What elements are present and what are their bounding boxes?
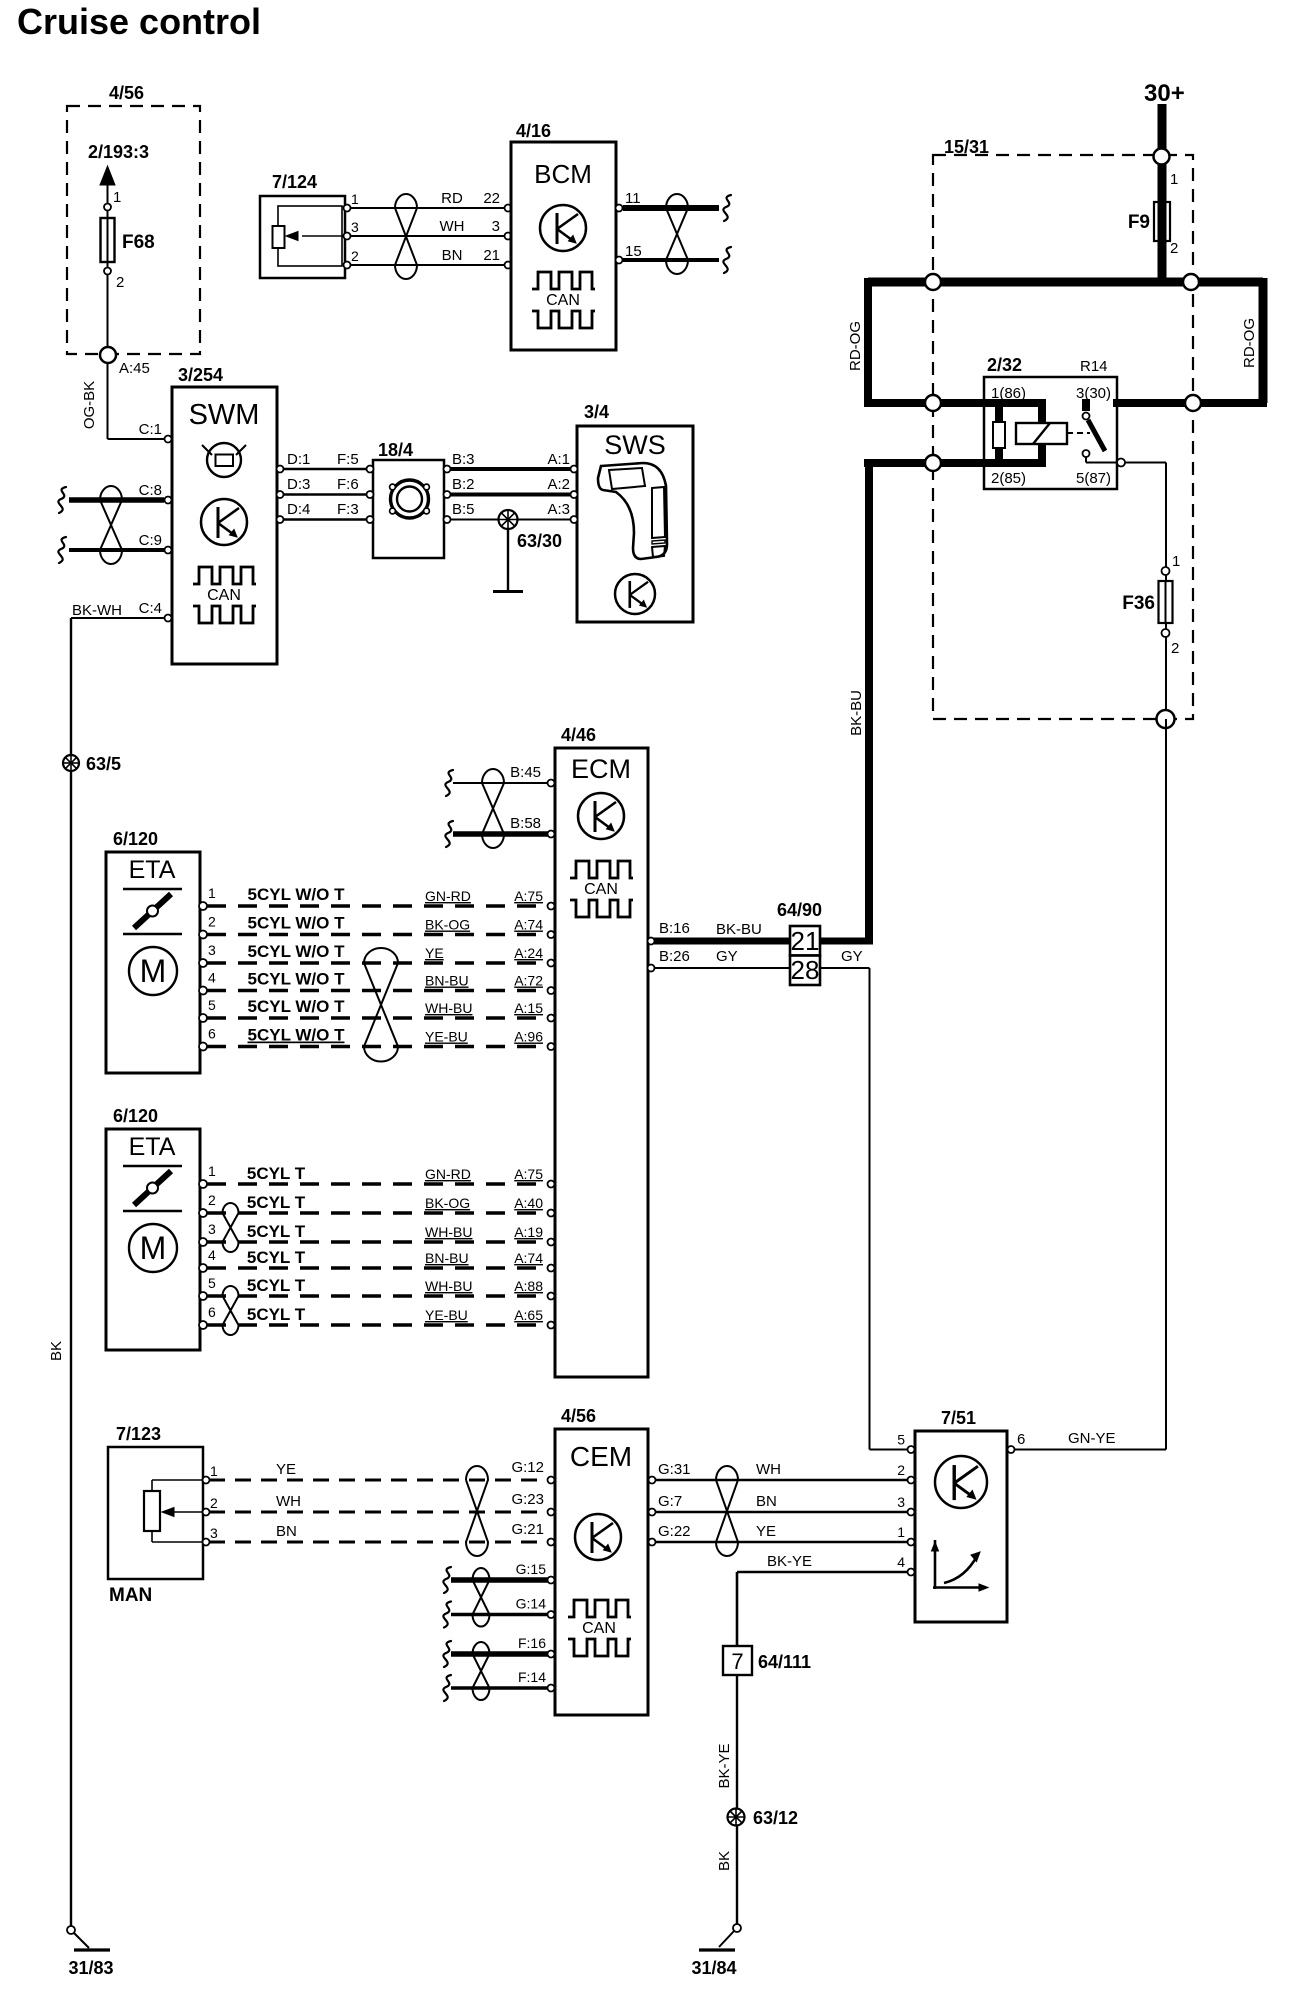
svg-text:4/46: 4/46 — [561, 725, 596, 745]
svg-text:A:75: A:75 — [514, 888, 543, 904]
svg-text:BN: BN — [756, 1493, 777, 1510]
svg-text:WH-BU: WH-BU — [425, 1278, 472, 1294]
svg-text:G:21: G:21 — [511, 1521, 544, 1538]
svg-text:6/120: 6/120 — [113, 829, 158, 849]
svg-text:WH-BU: WH-BU — [425, 1000, 472, 1016]
svg-text:GN-YE: GN-YE — [1068, 1430, 1116, 1447]
svg-text:63/12: 63/12 — [753, 1808, 798, 1828]
svg-text:B:58: B:58 — [510, 815, 541, 832]
svg-text:C:8: C:8 — [139, 482, 162, 499]
svg-text:CAN: CAN — [584, 881, 618, 898]
svg-text:BN: BN — [442, 247, 463, 264]
svg-text:G:12: G:12 — [511, 1459, 544, 1476]
svg-text:BK: BK — [716, 1851, 733, 1871]
svg-text:CAN: CAN — [582, 1620, 616, 1637]
svg-text:28: 28 — [791, 955, 820, 985]
svg-text:1: 1 — [208, 1163, 216, 1179]
svg-text:63/30: 63/30 — [517, 531, 562, 551]
svg-text:F68: F68 — [122, 232, 155, 253]
svg-text:3: 3 — [210, 1525, 218, 1541]
svg-text:MAN: MAN — [109, 1585, 152, 1606]
svg-text:6: 6 — [208, 1304, 216, 1320]
svg-text:F:14: F:14 — [518, 1669, 546, 1685]
svg-text:5CYL W/O T: 5CYL W/O T — [248, 885, 346, 904]
svg-text:2: 2 — [1171, 640, 1179, 657]
svg-text:B:2: B:2 — [452, 476, 475, 493]
svg-text:15: 15 — [625, 243, 642, 260]
svg-text:1: 1 — [1172, 553, 1180, 570]
svg-text:5CYL W/O T: 5CYL W/O T — [248, 997, 346, 1016]
svg-text:C:4: C:4 — [139, 600, 162, 617]
svg-text:GN-RD: GN-RD — [425, 888, 471, 904]
svg-text:F:5: F:5 — [337, 451, 359, 468]
svg-text:F:3: F:3 — [337, 501, 359, 518]
svg-text:GY: GY — [841, 948, 863, 965]
svg-text:7: 7 — [731, 1649, 743, 1674]
svg-text:A:45: A:45 — [119, 360, 150, 377]
svg-text:BN-BU: BN-BU — [425, 1250, 469, 1266]
svg-text:3: 3 — [208, 942, 216, 958]
svg-text:ECM: ECM — [571, 754, 631, 784]
svg-text:BK-BU: BK-BU — [848, 690, 865, 736]
svg-text:5CYL T: 5CYL T — [247, 1193, 306, 1212]
svg-text:2: 2 — [210, 1495, 218, 1511]
svg-text:F9: F9 — [1128, 212, 1150, 233]
svg-text:A:40: A:40 — [514, 1195, 543, 1211]
svg-text:6: 6 — [1017, 1431, 1025, 1448]
svg-text:2/32: 2/32 — [987, 355, 1022, 375]
svg-text:C:9: C:9 — [139, 532, 162, 549]
svg-text:CEM: CEM — [570, 1441, 632, 1472]
svg-text:7/51: 7/51 — [941, 1408, 976, 1428]
svg-text:2: 2 — [351, 248, 359, 264]
svg-text:1: 1 — [208, 885, 216, 901]
svg-text:3/254: 3/254 — [178, 365, 223, 385]
svg-text:M: M — [140, 1230, 167, 1266]
svg-text:WH: WH — [440, 218, 465, 235]
svg-text:4/56: 4/56 — [561, 1406, 596, 1426]
svg-text:YE: YE — [276, 1461, 296, 1478]
svg-text:A:74: A:74 — [514, 1250, 543, 1266]
svg-text:A:2: A:2 — [547, 476, 570, 493]
svg-text:4: 4 — [897, 1554, 905, 1570]
svg-text:22: 22 — [483, 190, 500, 207]
svg-text:WH: WH — [276, 1493, 301, 1510]
svg-text:4/16: 4/16 — [516, 121, 551, 141]
svg-text:5CYL T: 5CYL T — [247, 1164, 306, 1183]
svg-text:5: 5 — [208, 997, 216, 1013]
svg-text:21: 21 — [791, 926, 820, 956]
svg-text:WH-BU: WH-BU — [425, 1224, 472, 1240]
svg-text:B:3: B:3 — [452, 451, 475, 468]
svg-text:5CYL T: 5CYL T — [247, 1248, 306, 1267]
svg-text:A:75: A:75 — [514, 1166, 543, 1182]
svg-text:BK-BU: BK-BU — [716, 921, 762, 938]
svg-text:D:3: D:3 — [287, 476, 310, 493]
svg-text:30+: 30+ — [1144, 80, 1185, 107]
svg-text:2: 2 — [208, 1192, 216, 1208]
svg-text:5CYL W/O T: 5CYL W/O T — [248, 970, 346, 989]
svg-text:63/5: 63/5 — [86, 754, 121, 774]
svg-text:BK-WH: BK-WH — [72, 602, 122, 619]
svg-text:5: 5 — [897, 1432, 905, 1448]
svg-text:5CYL W/O T: 5CYL W/O T — [248, 1026, 346, 1045]
svg-text:WH: WH — [756, 1461, 781, 1478]
svg-text:1: 1 — [897, 1524, 905, 1540]
svg-text:RD-OG: RD-OG — [1241, 318, 1258, 368]
svg-text:31/83: 31/83 — [68, 1958, 113, 1978]
svg-text:G:14: G:14 — [516, 1596, 547, 1612]
svg-text:A:72: A:72 — [514, 973, 543, 989]
svg-text:SWS: SWS — [604, 430, 666, 460]
svg-text:B:45: B:45 — [510, 764, 541, 781]
svg-text:BK-YE: BK-YE — [716, 1743, 733, 1788]
svg-text:YE-BU: YE-BU — [425, 1307, 468, 1323]
svg-text:18/4: 18/4 — [378, 440, 413, 460]
svg-text:11: 11 — [625, 190, 641, 207]
svg-text:6: 6 — [208, 1026, 216, 1042]
svg-text:GN-RD: GN-RD — [425, 1166, 471, 1182]
svg-text:2: 2 — [116, 274, 124, 291]
svg-text:F:16: F:16 — [518, 1635, 546, 1651]
svg-text:BK-OG: BK-OG — [425, 917, 470, 933]
svg-text:A:88: A:88 — [514, 1278, 543, 1294]
svg-text:GY: GY — [716, 948, 738, 965]
svg-text:R14: R14 — [1080, 358, 1108, 375]
svg-text:64/90: 64/90 — [777, 900, 822, 920]
svg-text:3(30): 3(30) — [1076, 385, 1111, 402]
svg-text:3: 3 — [897, 1494, 905, 1510]
svg-text:3/4: 3/4 — [584, 402, 609, 422]
svg-text:C:1: C:1 — [139, 421, 162, 438]
svg-text:OG-BK: OG-BK — [81, 381, 98, 429]
svg-text:5CYL W/O T: 5CYL W/O T — [248, 942, 346, 961]
svg-text:1: 1 — [351, 191, 359, 207]
svg-text:5CYL T: 5CYL T — [247, 1222, 306, 1241]
svg-text:1: 1 — [210, 1463, 218, 1479]
svg-text:RD: RD — [441, 190, 463, 207]
svg-text:2: 2 — [1170, 240, 1178, 257]
svg-text:G:22: G:22 — [658, 1523, 691, 1540]
svg-text:4: 4 — [208, 970, 216, 986]
svg-text:5CYL T: 5CYL T — [247, 1276, 306, 1295]
svg-text:BN-BU: BN-BU — [425, 973, 469, 989]
svg-text:SWM: SWM — [189, 399, 260, 431]
svg-text:5(87): 5(87) — [1076, 470, 1111, 487]
svg-text:BN: BN — [276, 1523, 297, 1540]
svg-text:4: 4 — [208, 1247, 216, 1263]
svg-text:RD-OG: RD-OG — [847, 321, 864, 371]
svg-text:A:1: A:1 — [547, 451, 570, 468]
svg-text:21: 21 — [483, 247, 500, 264]
svg-text:5CYL W/O T: 5CYL W/O T — [248, 914, 346, 933]
svg-text:5: 5 — [208, 1275, 216, 1291]
svg-text:B:26: B:26 — [659, 948, 690, 965]
svg-text:YE-BU: YE-BU — [425, 1029, 468, 1045]
svg-text:G:15: G:15 — [516, 1561, 547, 1577]
svg-text:BK: BK — [48, 1341, 65, 1361]
svg-text:A:65: A:65 — [514, 1307, 543, 1323]
svg-text:G:7: G:7 — [658, 1493, 682, 1510]
svg-text:3: 3 — [208, 1221, 216, 1237]
svg-text:1: 1 — [1170, 171, 1178, 188]
svg-text:5CYL T: 5CYL T — [247, 1305, 306, 1324]
svg-text:D:4: D:4 — [287, 501, 310, 518]
svg-text:A:24: A:24 — [514, 945, 543, 961]
svg-text:BK-OG: BK-OG — [425, 1195, 470, 1211]
svg-text:3: 3 — [351, 219, 359, 235]
svg-text:2/193:3: 2/193:3 — [88, 142, 149, 162]
svg-text:CAN: CAN — [207, 587, 241, 604]
svg-text:7/124: 7/124 — [272, 172, 317, 192]
svg-text:7/123: 7/123 — [116, 1424, 161, 1444]
svg-text:Cruise control: Cruise control — [17, 1, 261, 42]
svg-text:ETA: ETA — [129, 1133, 176, 1161]
svg-text:A:19: A:19 — [514, 1224, 543, 1240]
svg-text:31/84: 31/84 — [691, 1958, 736, 1978]
svg-text:G:31: G:31 — [658, 1461, 691, 1478]
svg-text:A:3: A:3 — [547, 501, 570, 518]
svg-text:D:1: D:1 — [287, 451, 310, 468]
svg-text:B:5: B:5 — [452, 501, 475, 518]
svg-text:1: 1 — [113, 189, 121, 206]
svg-text:F:6: F:6 — [337, 476, 359, 493]
svg-text:G:23: G:23 — [511, 1491, 544, 1508]
svg-text:A:74: A:74 — [514, 917, 543, 933]
svg-text:4/56: 4/56 — [109, 83, 144, 103]
svg-text:2: 2 — [897, 1462, 905, 1478]
svg-text:BCM: BCM — [534, 159, 592, 189]
svg-text:6/120: 6/120 — [113, 1106, 158, 1126]
svg-text:2(85): 2(85) — [991, 470, 1026, 487]
svg-text:A:15: A:15 — [514, 1000, 543, 1016]
svg-text:2: 2 — [208, 914, 216, 930]
svg-text:BK-YE: BK-YE — [767, 1553, 812, 1570]
svg-text:64/111: 64/111 — [758, 1652, 811, 1672]
svg-text:A:96: A:96 — [514, 1029, 543, 1045]
svg-text:M: M — [140, 953, 167, 989]
svg-text:YE: YE — [756, 1523, 776, 1540]
svg-text:CAN: CAN — [546, 292, 580, 309]
svg-text:B:16: B:16 — [659, 920, 690, 937]
svg-text:F36: F36 — [1122, 593, 1155, 614]
svg-text:ETA: ETA — [129, 856, 176, 884]
svg-text:YE: YE — [425, 945, 444, 961]
svg-text:3: 3 — [492, 218, 500, 235]
